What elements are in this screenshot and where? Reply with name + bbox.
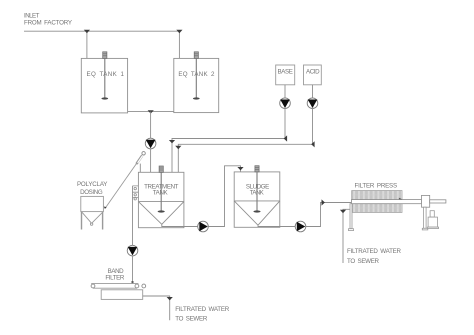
mixer shaft treatment tank: [160, 172, 162, 210]
svg-text:FILTRATED WATER: FILTRATED WATER: [347, 248, 402, 255]
wire filter press filtrate outlet: [343, 209, 350, 263]
mixer impeller treatment tank: [158, 210, 165, 212]
arrow at corner into EQ tank 2: [176, 30, 182, 33]
band filter collection box: [101, 290, 143, 300]
mixer shaft sludge tank: [256, 172, 258, 211]
wire header down to pump P1: [150, 112, 152, 139]
wire ACID box to pump P6: [312, 85, 314, 98]
dosing weir nozzles on treatment tank left wall: [133, 186, 139, 200]
arrow drop into sludge tank: [237, 167, 243, 170]
mixer impeller sludge tank: [253, 210, 260, 212]
polyclay dosing hopper: [81, 196, 104, 229]
arrow BASE line corner: [284, 135, 287, 141]
mixer motor on sludge tank: [255, 166, 259, 172]
pump P5 (BASE dosing, down): [280, 98, 291, 109]
wire drop into EQ tank 1: [86, 31, 88, 58]
pump P2 (treatment transfer, right): [198, 221, 209, 232]
arrow at tee into EQ tank 1: [84, 30, 90, 33]
wire band filter outlet: [143, 296, 170, 320]
wire treatment tank weir down to pump P4: [132, 186, 134, 245]
band filter belt: [91, 284, 146, 289]
wire pump P2 up and over to sludge tank: [208, 166, 240, 227]
svg-text:FILTER: FILTER: [105, 275, 125, 282]
svg-text:TO SEWER: TO SEWER: [347, 258, 380, 265]
screw conveyor from hopper to treatment tank: [104, 152, 146, 209]
mixer impeller EQ tank 2: [193, 97, 200, 99]
mixer impeller EQ tank 1: [101, 97, 108, 99]
sludge tank cone: [234, 201, 280, 225]
ACID dosing box: [304, 65, 322, 85]
arrow ACID drop into tank: [175, 146, 181, 149]
wire EQ tanks common outlet header: [128, 111, 174, 113]
wire conveyor discharge into treatment tank: [139, 164, 141, 173]
svg-text:ACID: ACID: [306, 69, 320, 76]
arrow at junction of EQ outlet header: [148, 110, 154, 113]
arrow ACID line corner: [311, 141, 314, 147]
wire drop into EQ tank 2: [178, 31, 180, 58]
mixer shaft EQ tank 1: [104, 58, 106, 97]
pump P1 (EQ transfer, down): [145, 138, 156, 149]
filter press tail bar: [430, 200, 446, 203]
mixer motor on treatment tank: [159, 166, 163, 172]
filter press center bar: [352, 200, 422, 204]
treatment tank cone: [138, 202, 184, 225]
wire treatment tank outlet to pump P2: [162, 224, 198, 226]
arrow BASE drop into tank: [169, 140, 175, 143]
tank TREATMENT TANK: [138, 172, 184, 227]
mixer motor on EQ tank 2: [194, 52, 198, 59]
wire sludge tank outlet to pump P3: [258, 225, 295, 226]
svg-text:DOSING: DOSING: [80, 189, 103, 196]
wire pump P3 to filter press: [306, 203, 352, 227]
tank SLUDGE TANK: [234, 172, 280, 227]
pump P3 (sludge transfer, right): [295, 221, 306, 232]
pump P4 (band filter feed, down): [127, 245, 138, 256]
svg-text:EQ TANK 1: EQ TANK 1: [86, 71, 124, 78]
filter press plate pack: [352, 191, 402, 213]
mixer motor on EQ tank 1: [103, 52, 107, 59]
filter press feed arrow mark: [399, 198, 402, 201]
svg-text:TO SEWER: TO SEWER: [175, 315, 208, 322]
filter press left leg: [349, 204, 354, 231]
wire pump P4 to band filter: [132, 256, 134, 283]
filter press hydraulic unit: [427, 211, 438, 229]
svg-text:BASE: BASE: [277, 69, 293, 76]
wire BASE pump to treatment tank: [172, 109, 285, 173]
tank EQ TANK 2: [174, 58, 219, 112]
svg-text:POLYCLAY: POLYCLAY: [77, 181, 108, 188]
wire ACID pump to treatment tank: [178, 109, 312, 173]
arrow into filter press: [322, 199, 325, 205]
wire BASE box to pump P5: [284, 85, 286, 98]
svg-text:TANK: TANK: [153, 189, 169, 196]
mixer shaft EQ tank 2: [195, 58, 197, 97]
arrow filtrate down: [340, 210, 346, 213]
wire inlet from factory: [24, 30, 179, 32]
pump P6 (ACID dosing, down): [307, 98, 318, 109]
wire pump P1 to treatment tank: [150, 149, 152, 173]
svg-text:FILTRATED WATER: FILTRATED WATER: [175, 306, 230, 313]
filter press right leg: [422, 207, 428, 230]
BASE dosing box: [276, 65, 295, 85]
pipe end nub at band filter: [132, 281, 134, 283]
tank EQ TANK 1: [81, 58, 127, 113]
svg-text:FILTER PRESS: FILTER PRESS: [355, 182, 398, 189]
arrow band filter outlet corner: [167, 297, 173, 300]
filter press head block: [422, 195, 430, 207]
svg-text:FROM FACTORY: FROM FACTORY: [24, 19, 72, 26]
